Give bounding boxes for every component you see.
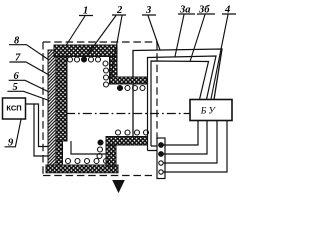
terminal 4 <box>159 170 163 174</box>
label 1 <box>66 6 93 46</box>
wire KSP to mold (upper) <box>26 104 51 147</box>
coil rect 3 <box>133 49 222 140</box>
svg-text:КСП: КСП <box>6 104 21 113</box>
cooling channels under top flange <box>118 86 146 91</box>
mold top step vertical <box>110 57 118 78</box>
mold bottom flange <box>106 137 148 146</box>
label 5 <box>7 82 49 101</box>
wire BU to terminal 4 <box>164 121 228 173</box>
mold top flange <box>110 77 148 84</box>
melt flow arrow <box>113 181 124 193</box>
dashed enclosure bottom edge <box>43 175 152 177</box>
wire BU to terminal 2 <box>164 121 208 155</box>
cooling channels above bottom flange <box>116 130 149 135</box>
label 3 <box>142 5 160 50</box>
mold bottom wall <box>46 165 118 173</box>
label 6 <box>9 71 49 92</box>
coil rect 3b <box>151 61 209 146</box>
horizontal center axis <box>66 113 190 115</box>
mold inner wall layer (left, crosshatch) <box>56 45 67 165</box>
mold outer wall layer (left, diagonal hatch) <box>48 50 56 165</box>
cooling channels along bottom step <box>97 140 103 159</box>
cooling channels above bottom wall <box>66 159 109 164</box>
label 7 <box>9 53 49 76</box>
dashed enclosure left edge <box>42 42 44 175</box>
wire BU to terminal 1 <box>164 121 199 146</box>
wire BU to terminal 3 <box>164 121 218 164</box>
mold bottom step vertical <box>106 145 116 166</box>
cooling channels along top step <box>103 61 109 87</box>
label 9 <box>5 120 22 149</box>
svg-text:БУ: БУ <box>200 107 218 117</box>
label 3b <box>190 5 215 62</box>
dashed enclosure top edge <box>43 41 157 43</box>
svg-text:1: 1 <box>83 6 88 17</box>
terminal strip <box>157 138 165 179</box>
BU box <box>190 100 232 121</box>
svg-text:3: 3 <box>145 5 151 16</box>
mold top wall <box>54 45 117 57</box>
label 2 <box>85 5 126 76</box>
KSP box <box>3 98 26 119</box>
label 8 <box>9 36 49 61</box>
terminal 1 (filled) <box>159 143 164 148</box>
cooling channels under top wall <box>68 57 101 62</box>
terminal 3 <box>159 161 163 165</box>
cavity shoulder line <box>71 141 106 154</box>
label 3a <box>175 5 195 57</box>
coil rect 3a <box>148 56 217 151</box>
label 4 <box>211 5 236 100</box>
dashed enclosure right edge <box>156 42 158 139</box>
terminal 2 (filled) <box>159 152 164 157</box>
svg-text:2: 2 <box>116 5 123 16</box>
wire KSP to mold (lower) <box>34 104 50 156</box>
